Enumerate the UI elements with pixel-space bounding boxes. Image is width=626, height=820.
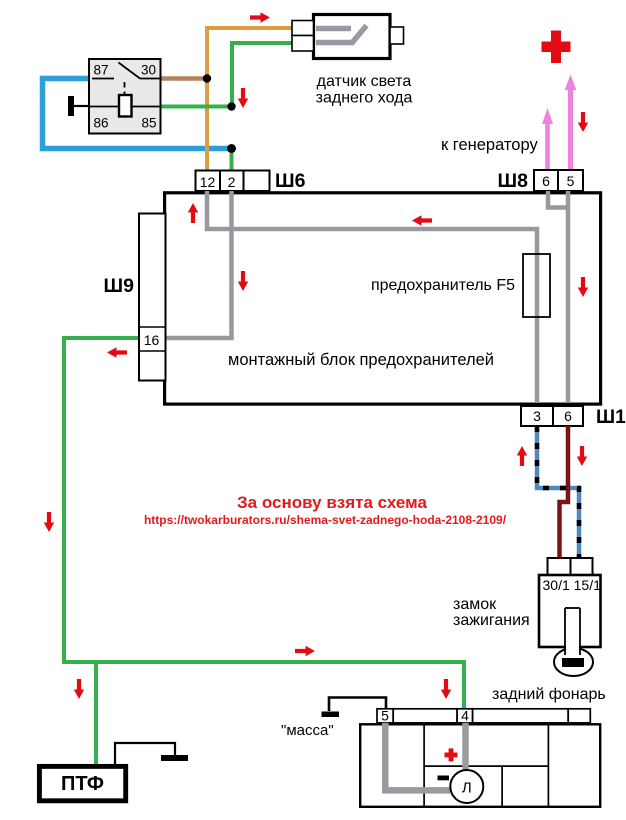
- arrow red down (right of pink): [578, 112, 588, 132]
- connector Sh6 empty cell: [244, 171, 270, 192]
- wire green to Sh6 pin 2: [230, 149, 234, 172]
- wire green relay 85: [160, 105, 232, 109]
- arrow red left (pin 16): [107, 347, 127, 357]
- wire grey thick from pin 5 to lamp: [385, 723, 450, 791]
- wire blue-black striped from Sh1 pin 3: [537, 426, 579, 558]
- svg-text:заднего хода: заднего хода: [316, 90, 413, 107]
- connector Sh1 pin 3: [521, 406, 553, 426]
- wire grey from pin 2 to pin 16: [163, 191, 232, 338]
- ignition lock (замок зажигания): [539, 558, 601, 676]
- arrow red down (pin 2): [238, 271, 248, 291]
- svg-text:замок: замок: [453, 596, 497, 613]
- lamp L: [450, 770, 483, 803]
- svg-text:2: 2: [228, 174, 236, 190]
- wire brown relay 30 to orange: [160, 76, 208, 81]
- svg-text:30: 30: [141, 63, 156, 78]
- svg-text:6: 6: [542, 173, 550, 189]
- wire grey thick from pin 4 to lamp: [462, 723, 469, 770]
- svg-text:Ш1: Ш1: [596, 407, 626, 428]
- fuse box (монтажный блок): [165, 193, 601, 404]
- plus mark in rear lamp: [445, 748, 458, 761]
- wire green from sensor: [232, 43, 292, 107]
- rear lamp body: [360, 723, 600, 808]
- ground at rear lamp pin 5 (масса): [322, 698, 387, 718]
- svg-text:датчик света: датчик света: [317, 73, 412, 90]
- svg-text:85: 85: [142, 116, 157, 131]
- wire grey from pin 12 through fuse F5: [207, 191, 537, 403]
- pink arrow to generator (left): [542, 108, 553, 169]
- svg-text:12: 12: [200, 174, 216, 190]
- arrow red down (rear lamp pin 4): [441, 679, 451, 699]
- svg-text:https://twokarburators.ru/shem: https://twokarburators.ru/shema-svet-zad…: [144, 513, 507, 527]
- svg-text:4: 4: [461, 708, 469, 724]
- arrow red right (green horizontal): [295, 646, 315, 656]
- wire green long from pin 16 to rear lamp pin 4: [64, 338, 464, 709]
- arrow red down (right side): [578, 277, 588, 297]
- svg-text:к генератору: к генератору: [441, 136, 538, 154]
- reverse light switch (датчик света заднего хода): [292, 15, 404, 59]
- arrow red up (left of striped wire): [517, 446, 527, 466]
- connector Sh1 pin 6: [553, 406, 583, 426]
- arrow red down (near sensor green): [238, 88, 248, 108]
- ground at PTF: [115, 743, 188, 764]
- connector Sh9 body: [139, 214, 166, 381]
- wire dark red from Sh1 pin 6: [560, 426, 569, 558]
- wire green branch to PTF: [94, 662, 98, 765]
- svg-text:зажигания: зажигания: [453, 612, 530, 629]
- ground at relay pin 86: [68, 96, 89, 116]
- connector Sh8 pin 6: [534, 170, 558, 191]
- PTF fog light box: [39, 766, 125, 800]
- arrow red down (right of dark red wire): [577, 446, 587, 466]
- arrow red up (pin 12): [188, 203, 198, 223]
- svg-text:задний фонарь: задний фонарь: [492, 686, 606, 703]
- svg-text:"масса": "масса": [281, 722, 334, 739]
- svg-text:3: 3: [533, 408, 541, 424]
- node junction brown-orange: [203, 74, 211, 82]
- arrow red left (top horizontal): [412, 215, 432, 225]
- arrow red down (green vertical): [44, 512, 54, 532]
- svg-text:За основу взята схема: За основу взята схема: [237, 493, 427, 512]
- rear lamp connector strip: [377, 709, 590, 723]
- svg-text:монтажный блок предохранителей: монтажный блок предохранителей: [228, 351, 494, 369]
- svg-text:предохранитель F5: предохранитель F5: [371, 277, 515, 294]
- node junction green: [227, 102, 235, 110]
- connector Sh6 pin 2: [220, 171, 244, 192]
- connector Sh8 pin 5: [558, 170, 583, 191]
- arrow red right (top): [250, 12, 270, 22]
- svg-text:16: 16: [144, 332, 160, 348]
- minus mark in rear lamp: [438, 776, 450, 781]
- pink arrow to generator (right): [565, 75, 577, 170]
- svg-text:Ш9: Ш9: [104, 275, 135, 297]
- relay K1: [89, 59, 161, 134]
- arrow red down (PTF branch): [74, 679, 84, 699]
- wire grey from Sh8 pin 6: [548, 191, 568, 208]
- svg-text:30/1 15/1: 30/1 15/1: [543, 577, 602, 593]
- svg-text:ПТФ: ПТФ: [61, 773, 104, 795]
- svg-text:5: 5: [381, 708, 389, 724]
- svg-text:86: 86: [94, 116, 109, 131]
- svg-text:87: 87: [94, 63, 109, 78]
- svg-text:Ш8: Ш8: [498, 170, 529, 192]
- svg-text:5: 5: [567, 173, 575, 189]
- svg-text:Ш6: Ш6: [275, 170, 306, 192]
- wire blue from relay 87: [43, 79, 232, 149]
- svg-text:6: 6: [564, 408, 572, 424]
- svg-text:Л: Л: [462, 780, 472, 797]
- battery plus symbol: [542, 31, 571, 64]
- fuse F5: [523, 254, 550, 317]
- node junction blue-green: [227, 144, 236, 153]
- wire grey from Sh8 pin 5 to Sh1 pin 6: [566, 191, 571, 403]
- wire orange to sensor: [207, 28, 292, 171]
- connector Sh6 pin 12: [196, 171, 221, 192]
